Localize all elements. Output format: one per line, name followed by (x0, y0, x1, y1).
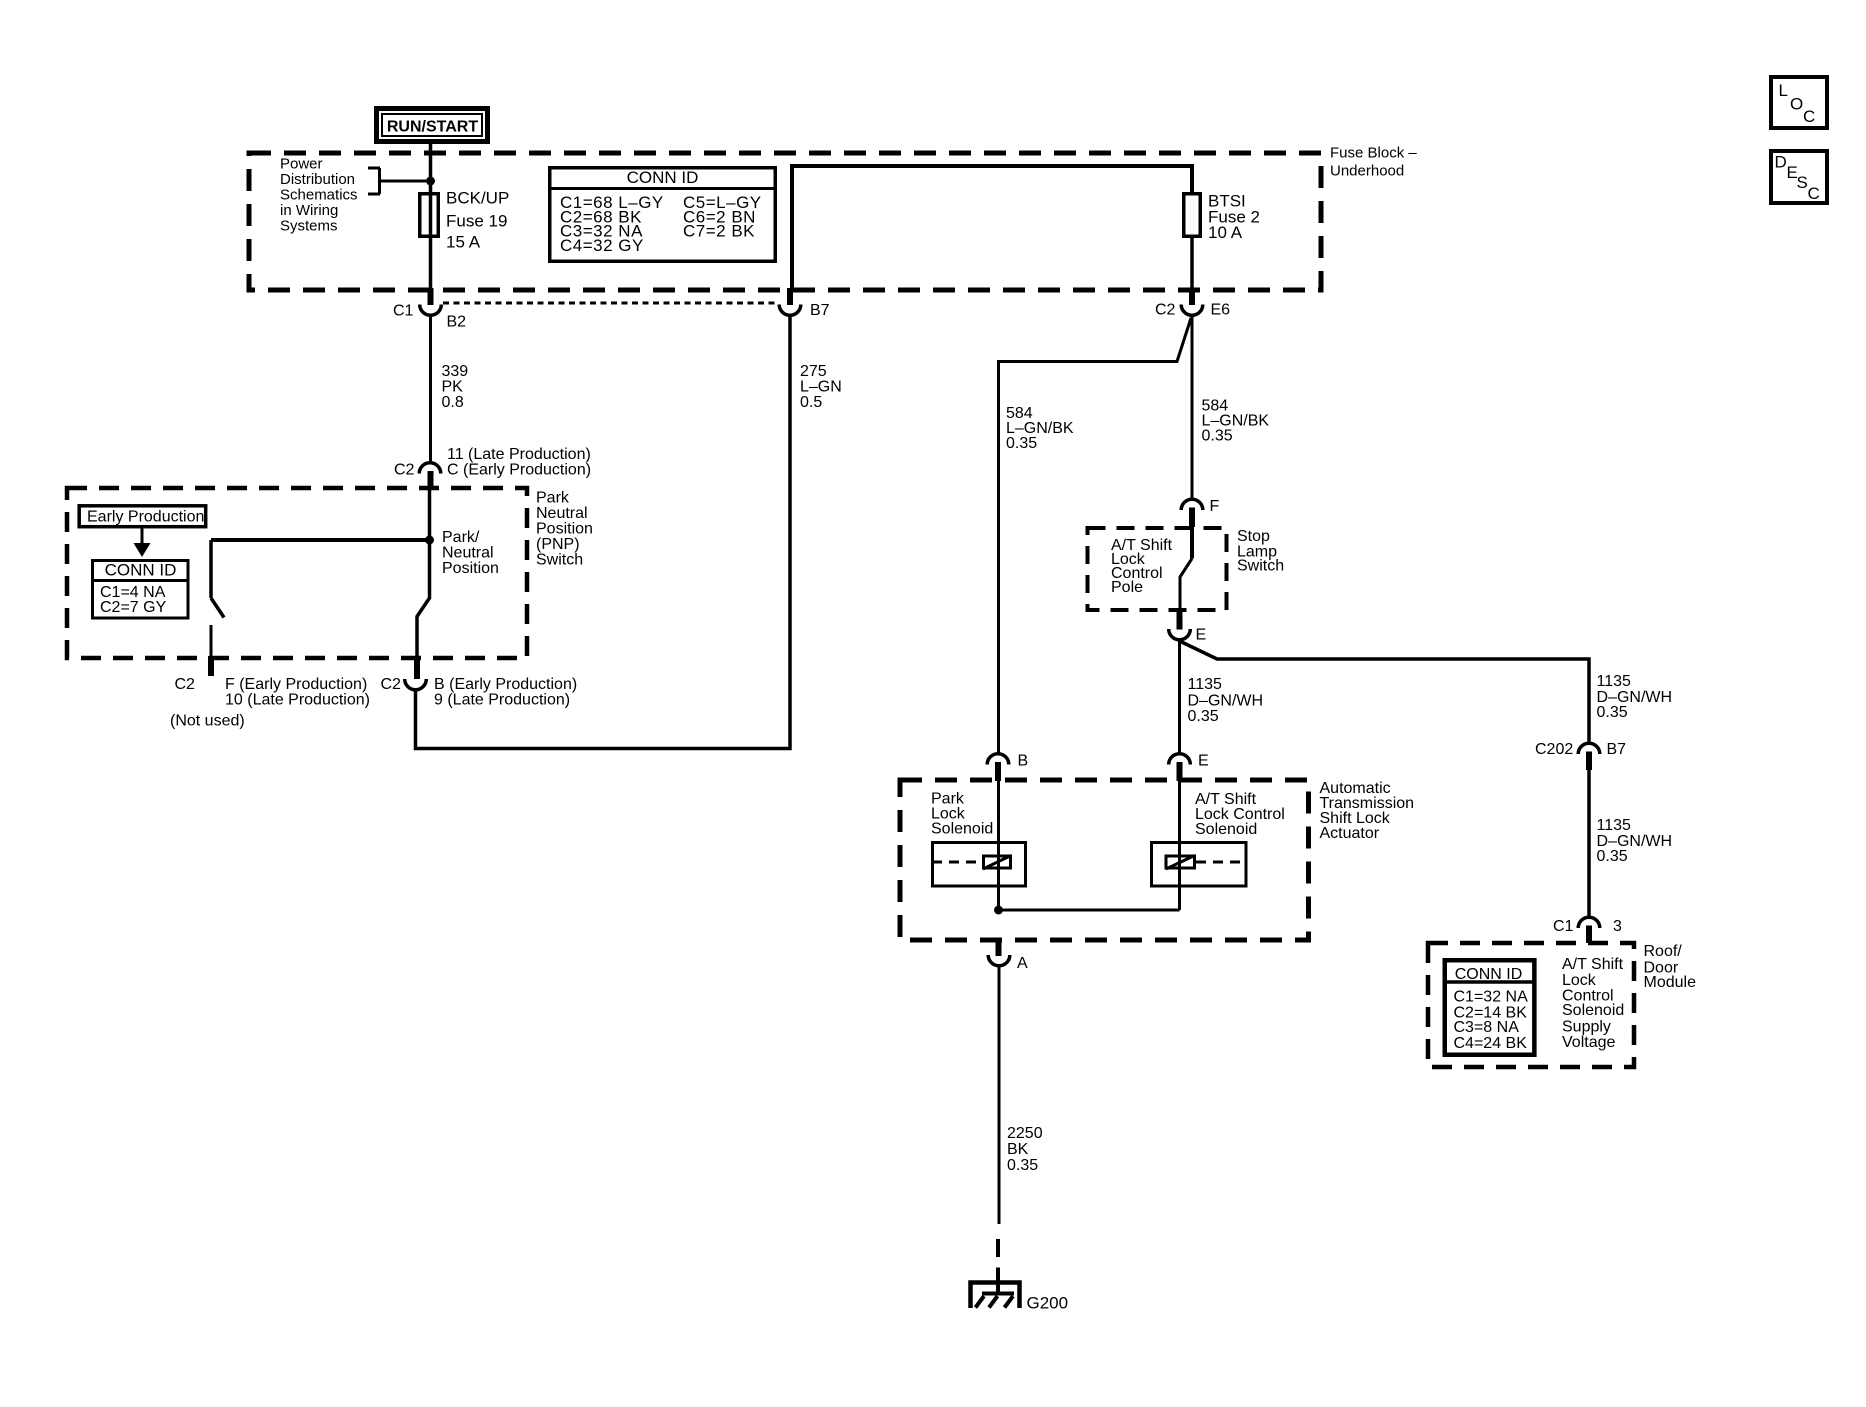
svg-text:BK: BK (1007, 1141, 1029, 1158)
label A/T Shift Lock Control Solenoid (1195, 791, 1285, 838)
svg-text:0.35: 0.35 (1597, 704, 1628, 721)
connector C2/E6 (1155, 288, 1230, 319)
junction dot solenoid common (994, 906, 1003, 915)
automatic transmission shift lock actuator dashed box (900, 780, 1309, 940)
wire solenoid common (999, 909, 1180, 912)
svg-text:B7: B7 (1607, 741, 1627, 758)
wire through AT shift lock solenoid (1178, 781, 1181, 910)
svg-text:A/T Shift: A/T Shift (1562, 956, 1624, 973)
svg-text:Position: Position (442, 560, 499, 577)
wire BTSI fuse to box edge (1190, 236, 1194, 288)
wire PNP crossbar (211, 538, 430, 542)
svg-text:E: E (1196, 627, 1207, 644)
svg-text:Position: Position (536, 521, 593, 538)
svg-text:in Wiring: in Wiring (280, 202, 338, 219)
label Roof/Door Module (1644, 943, 1697, 991)
arrow to conn id (141, 528, 144, 545)
svg-text:F (Early Production): F (Early Production) (225, 676, 367, 693)
svg-text:1135: 1135 (1188, 676, 1223, 693)
svg-text:0.35: 0.35 (1007, 1157, 1038, 1174)
connector C2 inline (PNP feed) (394, 446, 591, 490)
svg-text:275: 275 (800, 363, 827, 380)
svg-text:C2: C2 (381, 676, 402, 693)
ground G200 (971, 1283, 1069, 1313)
svg-text:B2: B2 (447, 313, 467, 330)
svg-text:1135: 1135 (1597, 673, 1632, 690)
svg-text:C202: C202 (1535, 741, 1573, 758)
svg-text:Solenoid: Solenoid (1195, 821, 1257, 838)
svg-text:2250: 2250 (1007, 1125, 1043, 1142)
svg-text:Systems: Systems (280, 218, 338, 235)
wire dash to ground (996, 1239, 1000, 1294)
connector C2/B (381, 656, 578, 709)
PNP switch dashed box (67, 488, 527, 658)
svg-text:Roof/: Roof/ (1644, 943, 1683, 960)
connector E stop lamp switch (1169, 612, 1206, 644)
svg-text:B (Early Production): B (Early Production) (434, 676, 577, 693)
svg-text:C2: C2 (394, 462, 415, 479)
svg-text:C3=8 NA: C3=8 NA (1454, 1019, 1520, 1036)
svg-text:O: O (1790, 95, 1803, 114)
svg-text:0.8: 0.8 (442, 394, 464, 411)
svg-text:Voltage: Voltage (1562, 1034, 1615, 1051)
connector C1/3 roof module (1553, 917, 1622, 943)
connector E shift lock solenoid (1169, 753, 1209, 782)
svg-text:Switch: Switch (1237, 558, 1284, 575)
svg-text:C1: C1 (1553, 918, 1574, 935)
power feed box RUN/START (374, 106, 490, 144)
CONN ID table early production (93, 561, 189, 619)
svg-text:B7: B7 (810, 302, 830, 319)
junction dot PNP (425, 536, 434, 545)
wire E6 to F (1191, 314, 1194, 499)
label Fuse Block - Underhood (1330, 145, 1417, 180)
svg-text:Early Production: Early Production (87, 509, 204, 526)
svg-text:C1: C1 (393, 303, 414, 320)
park lock solenoid box (932, 843, 1026, 887)
wire branch E6 to park lock solenoid (999, 318, 1192, 754)
label Park Neutral Position (PNP) Switch (536, 490, 593, 569)
svg-text:Fuse Block –: Fuse Block – (1330, 145, 1417, 162)
svg-text:Schematics: Schematics (280, 187, 358, 204)
label Park/Neutral Position (442, 529, 499, 577)
label A/T Shift Lock Control Solenoid Supply Voltage (1562, 956, 1624, 1051)
svg-text:1135: 1135 (1597, 817, 1632, 834)
svg-text:L: L (1779, 81, 1788, 100)
svg-text:C4=24 BK: C4=24 BK (1454, 1035, 1528, 1052)
svg-text:C4=32 GY: C4=32 GY (560, 236, 644, 255)
label 1135 D-GN/WH right lower (1597, 817, 1673, 865)
wire feed to BTSI fuse (792, 166, 1192, 288)
svg-text:3: 3 (1613, 918, 1622, 935)
PNP switch right pole (park closed) (417, 540, 430, 656)
Early Production call-out box (79, 506, 206, 527)
svg-text:CONN ID: CONN ID (105, 561, 177, 580)
svg-text:Distribution: Distribution (280, 171, 355, 188)
PNP switch left pole (not used) (211, 540, 224, 618)
svg-text:11 (Late Production): 11 (Late Production) (447, 446, 591, 463)
svg-text:Neutral: Neutral (442, 545, 494, 562)
roof/door module dashed box (1428, 943, 1634, 1067)
CONN ID table fuse block (550, 168, 776, 262)
svg-text:Supply: Supply (1562, 1019, 1611, 1036)
svg-text:G200: G200 (1027, 1294, 1069, 1313)
label A/T Shift Lock Control Pole (1111, 537, 1173, 596)
svg-text:B: B (1018, 753, 1029, 770)
connector C202/B7 (1535, 741, 1626, 770)
svg-text:10 A: 10 A (1208, 223, 1243, 242)
label 275 L-GN 0.5 (800, 363, 842, 411)
svg-text:Switch: Switch (536, 552, 583, 569)
svg-text:339: 339 (442, 363, 469, 380)
svg-text:Neutral: Neutral (536, 505, 588, 522)
connector B park lock solenoid (987, 753, 1028, 782)
svg-text:Lock: Lock (1562, 972, 1597, 989)
svg-text:0.35: 0.35 (1597, 848, 1628, 865)
svg-text:0.35: 0.35 (1006, 435, 1037, 452)
label 1135 D-GN/WH left (1188, 676, 1264, 725)
svg-text:C1=32 NA: C1=32 NA (1454, 989, 1529, 1006)
label 2250 BK 0.35 (1007, 1125, 1043, 1174)
label Park Lock Solenoid (931, 791, 993, 838)
svg-text:Power: Power (280, 156, 323, 173)
connector A (988, 940, 1028, 972)
connector F (1181, 498, 1219, 527)
icon LOC box (1771, 77, 1827, 128)
wire RUN/START to fuse BCK/UP (429, 144, 433, 288)
connector B7 (779, 288, 829, 319)
wire C202 to roof module (1587, 770, 1591, 917)
svg-text:Pole: Pole (1111, 579, 1143, 596)
svg-text:C: C (1803, 107, 1815, 126)
svg-text:E6: E6 (1211, 302, 1231, 319)
connector C1/B2 (393, 288, 466, 330)
icon DESC box (1771, 151, 1827, 203)
label 1135 D-GN/WH right upper (1597, 673, 1673, 721)
svg-text:F: F (1210, 498, 1220, 515)
wire E down to AT actuator (1178, 639, 1181, 754)
svg-text:Stop: Stop (1237, 528, 1270, 545)
svg-text:D: D (1775, 153, 1787, 172)
svg-text:Actuator: Actuator (1320, 825, 1380, 842)
label Stop Lamp Switch (1237, 528, 1284, 575)
svg-text:(Not used): (Not used) (170, 713, 245, 730)
svg-text:C: C (1808, 184, 1820, 203)
fuse block underhood dashed box (249, 153, 1321, 290)
label Automatic Transmission Shift Lock Actuator (1320, 780, 1415, 842)
svg-text:PK: PK (442, 379, 464, 396)
svg-text:0.35: 0.35 (1202, 428, 1233, 445)
CONN ID table roof module (1445, 960, 1535, 1055)
svg-text:15 A: 15 A (446, 233, 481, 252)
fuse BCK/UP Fuse 19 15A (420, 189, 510, 252)
svg-text:9 (Late Production): 9 (Late Production) (434, 692, 570, 709)
svg-text:C2: C2 (1155, 302, 1176, 319)
svg-text:Solenoid: Solenoid (931, 821, 993, 838)
svg-text:C2: C2 (175, 676, 196, 693)
svg-text:Module: Module (1644, 974, 1697, 991)
wire 2250 BK to ground (998, 966, 1001, 1225)
svg-text:C7=2 BK: C7=2 BK (683, 222, 755, 241)
svg-text:(PNP): (PNP) (536, 536, 580, 553)
svg-text:C2=7 GY: C2=7 GY (100, 599, 167, 616)
svg-text:C (Early Production): C (Early Production) (447, 462, 591, 479)
A/T shift lock control pole dashed box (1088, 528, 1227, 610)
svg-text:Underhood: Underhood (1330, 163, 1404, 180)
wire branch to C202 (1180, 641, 1590, 743)
terminal F stub (210, 625, 213, 656)
svg-text:0.35: 0.35 (1188, 708, 1219, 725)
label 584 L-GN/BK right (1202, 398, 1270, 445)
wire C2 into PNP switch (428, 489, 432, 540)
svg-text:Solenoid: Solenoid (1562, 1002, 1624, 1019)
label 339 PK 0.8 (442, 363, 469, 411)
wire 339 PK C1 to C2 (429, 314, 432, 463)
svg-text:D–GN/WH: D–GN/WH (1188, 693, 1264, 710)
bracket from note to wire (368, 168, 426, 194)
fuse BTSI Fuse 2 10A (1184, 192, 1260, 243)
wire through park lock solenoid (997, 781, 1000, 910)
svg-text:Park: Park (536, 490, 570, 507)
svg-text:Fuse 19: Fuse 19 (446, 212, 507, 231)
labels terminal F (170, 676, 370, 730)
svg-text:10 (Late Production): 10 (Late Production) (225, 692, 370, 709)
svg-text:RUN/START: RUN/START (387, 119, 478, 136)
wire 275 L-GN B7 down (416, 314, 791, 749)
svg-text:E: E (1198, 753, 1209, 770)
svg-text:CONN ID: CONN ID (627, 168, 699, 187)
svg-text:BCK/UP: BCK/UP (446, 189, 509, 208)
AT shift lock control solenoid box (1152, 843, 1247, 887)
label 584 L-GN/BK left (1006, 405, 1074, 452)
junction dot power distribution tap (426, 177, 435, 186)
svg-text:Park/: Park/ (442, 529, 480, 546)
stop lamp switch blade (1190, 527, 1194, 559)
svg-text:0.5: 0.5 (800, 394, 822, 411)
dotted line C1 to B7 (443, 302, 778, 305)
svg-text:S: S (1797, 173, 1808, 192)
svg-text:A: A (1017, 955, 1028, 972)
note Power Distribution Schematics (280, 156, 358, 235)
svg-text:L–GN: L–GN (800, 379, 842, 396)
